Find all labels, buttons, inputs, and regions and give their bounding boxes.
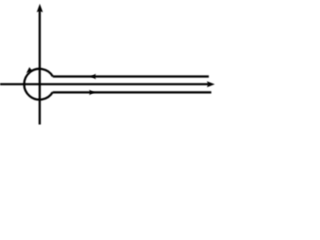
wire: horizontal x-axis bbox=[0, 83, 209, 85]
wire: top contour line (above branch cut) bbox=[53, 75, 209, 77]
keyhole (Hankel) contour diagram bbox=[0, 0, 220, 138]
wire: keyhole circle arc around origin bbox=[24, 69, 53, 100]
node: y-axis arrowhead (up) bbox=[37, 4, 43, 12]
node: x-axis arrowhead (right) bbox=[207, 81, 215, 87]
node: circle arrowhead (counterclockwise, pointing down-left) bbox=[26, 67, 32, 73]
wire: vertical y-axis bbox=[39, 11, 41, 125]
node: bottom contour arrowhead (right) bbox=[89, 90, 94, 95]
node: top contour arrowhead (left) bbox=[91, 74, 96, 79]
wire: bottom contour line (below branch cut) bbox=[53, 91, 212, 93]
